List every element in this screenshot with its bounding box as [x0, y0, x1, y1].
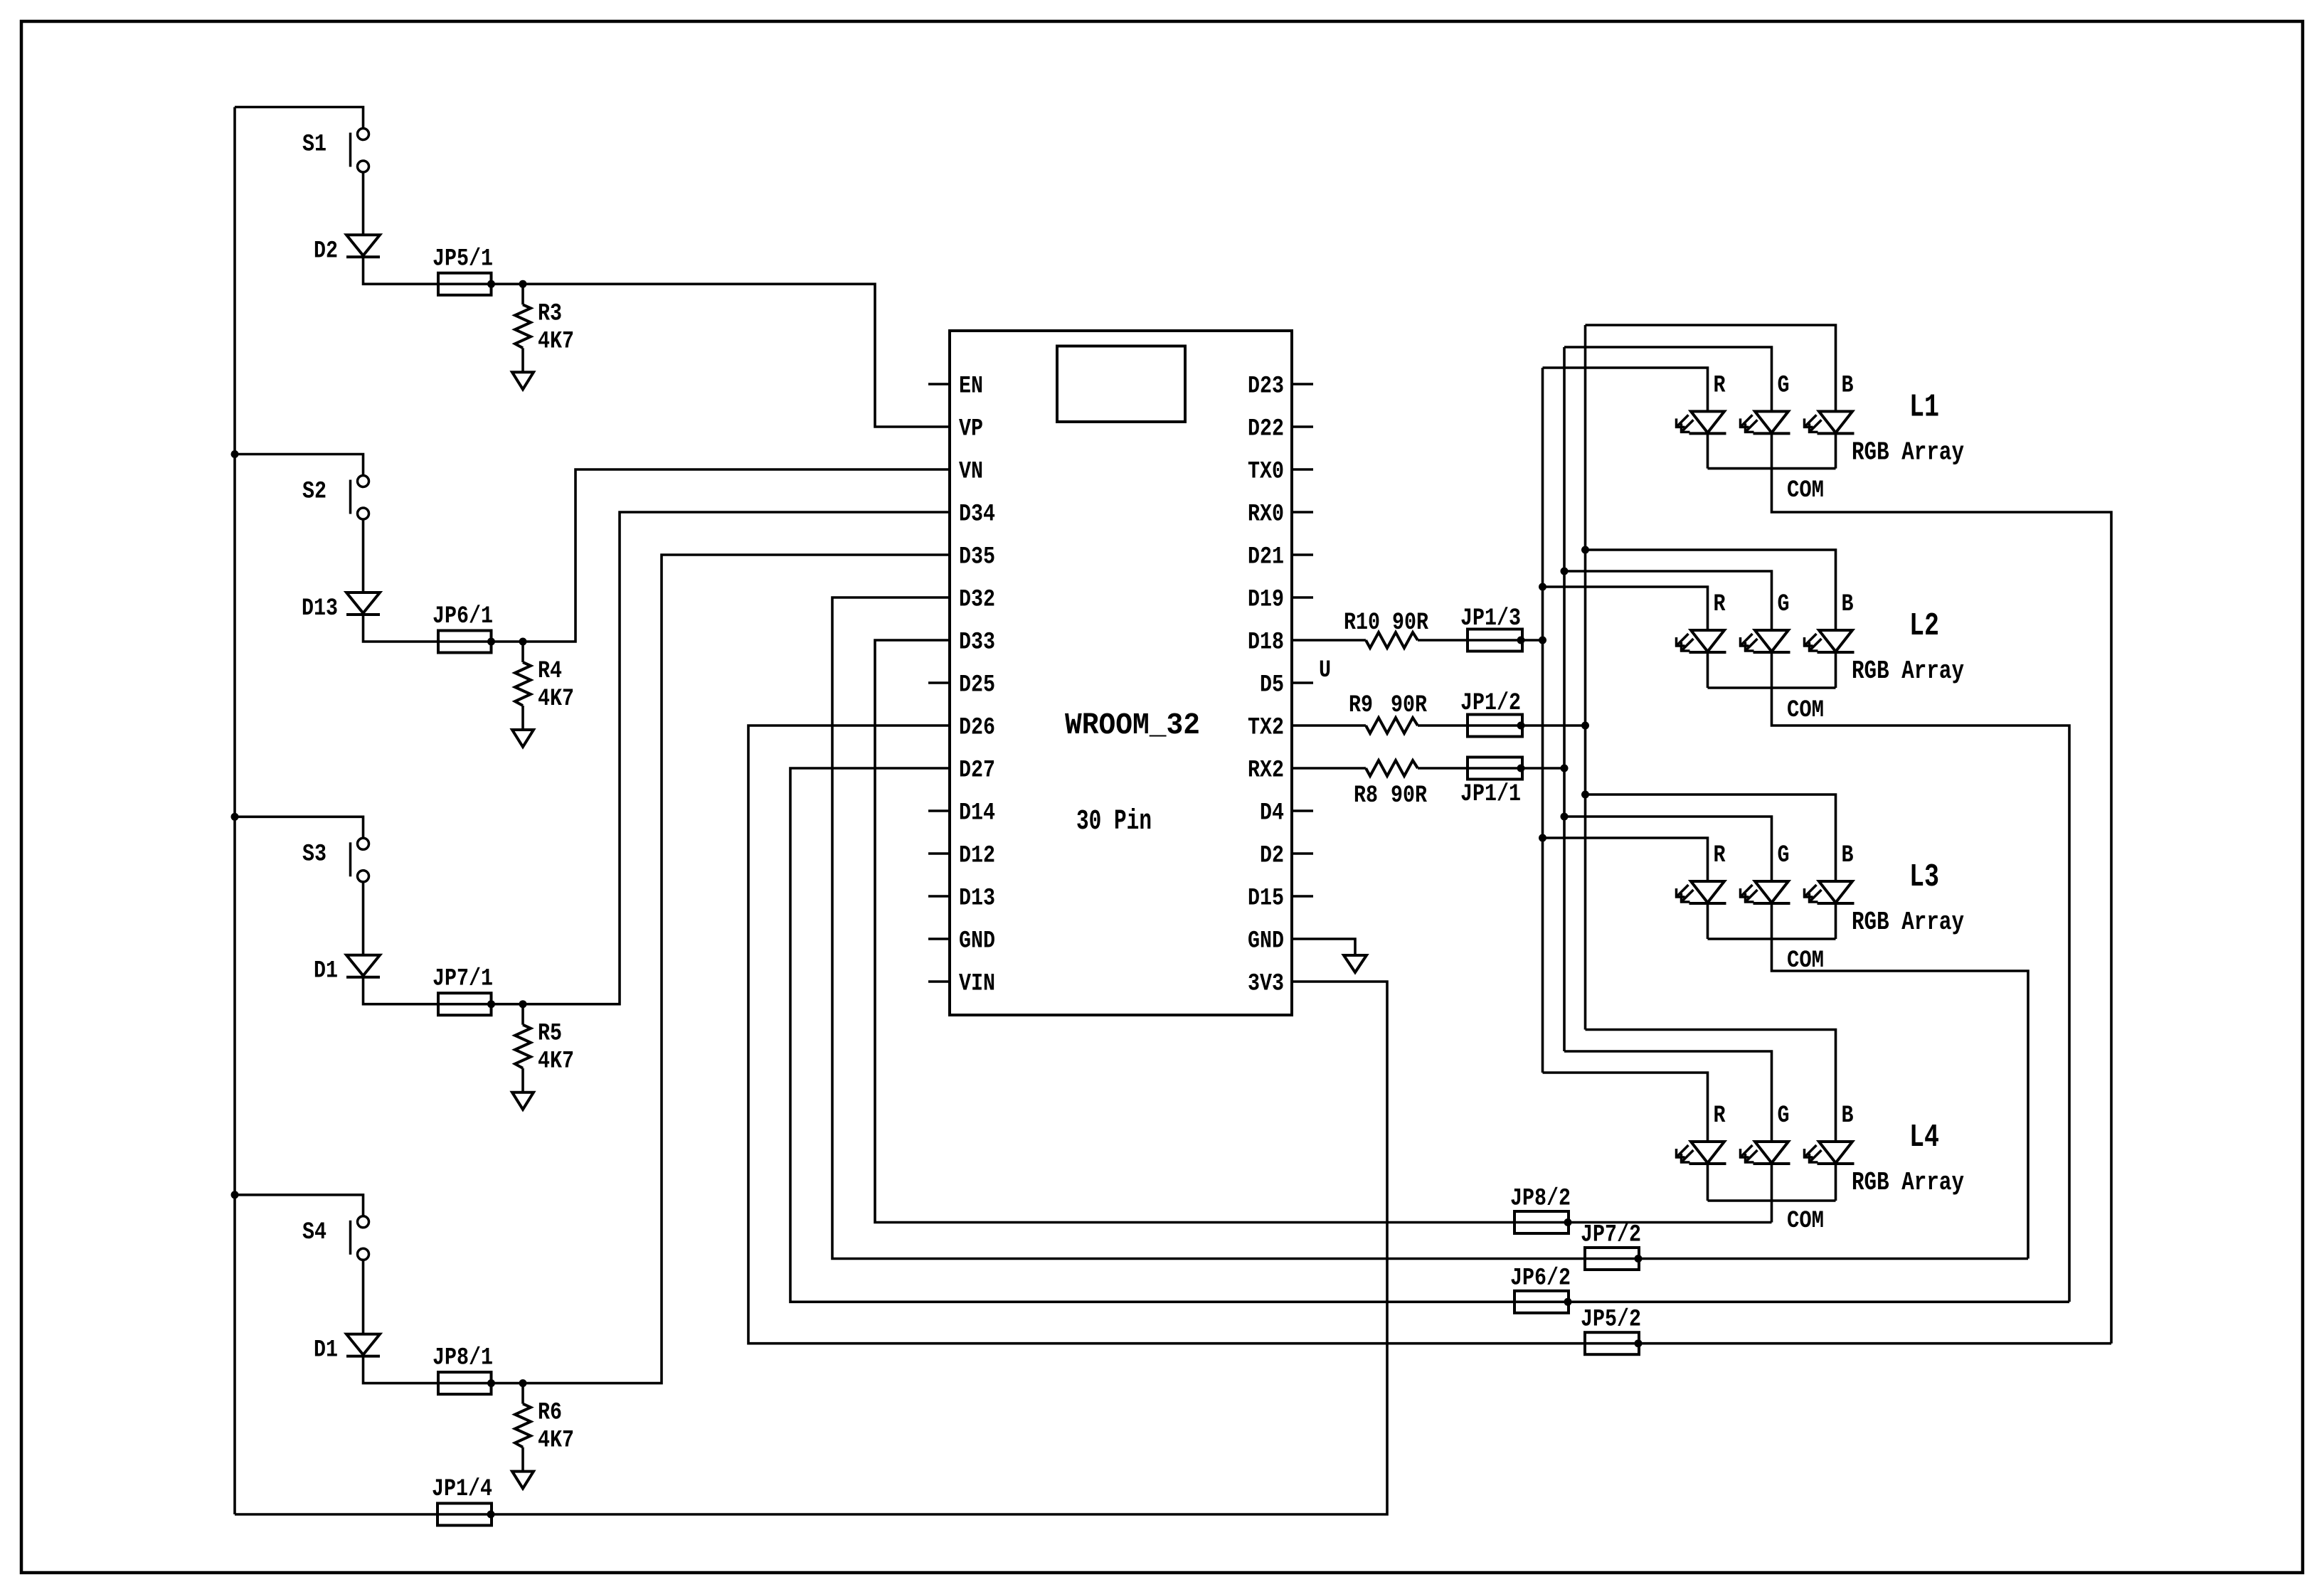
wire B bus [1584, 325, 1587, 1030]
node JP1/4 out [487, 1511, 495, 1519]
svg-text:D2: D2 [1260, 843, 1284, 870]
wire JP1/2 to bus [1522, 724, 1586, 727]
svg-text:GND: GND [959, 928, 995, 955]
svg-text:D35: D35 [959, 544, 995, 571]
svg-text:90R: 90R [1391, 782, 1427, 809]
LED L3 G [1755, 881, 1788, 903]
svg-text:4K7: 4K7 [538, 1048, 574, 1075]
svg-text:D26: D26 [959, 715, 995, 742]
svg-text:COM: COM [1787, 1208, 1824, 1235]
pin D25 (left 8) [928, 681, 950, 684]
wire L3 cathode rail [1707, 904, 1709, 939]
node JP6/1 out [487, 638, 495, 646]
wire JP8/2 right [1569, 1221, 1772, 1224]
resistor R10 90R [1366, 632, 1418, 648]
wire R bus [1542, 368, 1544, 1073]
svg-text:B: B [1842, 1102, 1854, 1130]
resistor R5 4K7 [521, 1004, 524, 1025]
svg-text:JP7/1: JP7/1 [433, 966, 493, 993]
ground R6 [512, 1472, 534, 1489]
wire L1 cathode rail [1707, 434, 1709, 468]
wire JP8/1 to R6 [492, 1382, 524, 1385]
node S3 tap [231, 813, 239, 821]
wire L3 B feed [1586, 795, 1836, 881]
wire left supply bus [233, 107, 236, 1515]
wire diode to jumper [364, 257, 439, 284]
svg-text:D4: D4 [1260, 800, 1284, 827]
svg-text:D12: D12 [959, 843, 995, 870]
resistor R6 4K7 [521, 1383, 524, 1404]
svg-text:COM: COM [1787, 947, 1824, 974]
pin D12 (left 12) [928, 852, 950, 855]
wire S2 to diode [362, 519, 365, 593]
resistor R8 90R [1366, 760, 1418, 776]
svg-text:VP: VP [959, 416, 983, 443]
svg-text:JP6/2: JP6/2 [1510, 1265, 1571, 1292]
node JP6/2 out [1564, 1298, 1572, 1306]
svg-text:D21: D21 [1248, 544, 1284, 571]
wire JP7/1 to D34 [523, 512, 950, 1004]
jumper JP6/1 [438, 640, 492, 643]
svg-text:JP1/2: JP1/2 [1460, 690, 1521, 717]
wire L1 R feed [1543, 368, 1708, 411]
node JP7/1 out [487, 1000, 495, 1008]
svg-text:D2: D2 [314, 238, 338, 265]
svg-text:B: B [1842, 372, 1854, 399]
wire S4 to diode [362, 1260, 365, 1334]
node S2 tap [231, 450, 239, 458]
LED L3 R [1691, 881, 1724, 903]
wire L2 cathode rail [1707, 653, 1709, 688]
wire G bus [1563, 347, 1566, 1051]
svg-text:VN: VN [959, 459, 983, 486]
wire JP6/2 row from pin [790, 768, 1514, 1302]
switch S2 [358, 476, 369, 487]
svg-text:R: R [1714, 1102, 1726, 1130]
svg-text:G: G [1778, 1102, 1790, 1130]
node JP7/2 out [1635, 1255, 1643, 1263]
diode D1 [346, 955, 380, 976]
svg-text:S1: S1 [302, 132, 327, 159]
diode D13 [346, 593, 380, 613]
svg-text:4K7: 4K7 [538, 328, 574, 355]
wire JP8/2 row from pin [875, 640, 1514, 1223]
svg-text:RGB Array: RGB Array [1852, 1168, 1964, 1197]
jumper JP1/1 [1468, 767, 1522, 770]
jumper JP1/2 [1468, 724, 1522, 727]
wire L4 cathode rail [1707, 1164, 1709, 1201]
svg-text:R: R [1714, 842, 1726, 869]
wire R8 to JP1/1 [1418, 767, 1468, 770]
svg-text:D19: D19 [1248, 587, 1284, 614]
svg-text:JP8/1: JP8/1 [433, 1345, 493, 1372]
pin RX0 (right 4) [1292, 511, 1313, 514]
wire L2 R feed [1543, 587, 1708, 630]
svg-text:L1: L1 [1909, 389, 1939, 425]
jumper JP5/1 [438, 282, 492, 285]
svg-text:S4: S4 [302, 1219, 327, 1246]
wire JP5/1 to R3 [492, 282, 524, 285]
jumper JP6/2 [1514, 1301, 1569, 1304]
pin D2 (right 12) [1292, 852, 1313, 855]
node JP1/2 bus junction [1581, 722, 1589, 730]
wire 3V3 to JP1/4 [492, 982, 1387, 1514]
svg-text:GND: GND [1248, 928, 1284, 955]
svg-text:D1: D1 [314, 958, 338, 985]
jumper JP7/1 [438, 1003, 492, 1006]
wire JP5/1 to VP [523, 284, 950, 427]
wire S2 top [235, 455, 364, 476]
resistor R3 4K7 [521, 284, 524, 304]
ground R3 [512, 372, 534, 389]
node R4 top [519, 638, 527, 646]
svg-text:S3: S3 [302, 841, 327, 868]
wire L4 B feed [1586, 1030, 1836, 1142]
pin D23 (right 1) [1292, 383, 1313, 386]
jumper JP5/2 [1585, 1342, 1639, 1345]
wire S4 top [235, 1195, 364, 1216]
LED L2 B [1819, 630, 1852, 652]
wire L1 G feed [1564, 347, 1772, 411]
svg-text:D23: D23 [1248, 373, 1284, 400]
jumper JP8/2 [1514, 1221, 1569, 1224]
node JP1/1 out [1517, 765, 1525, 772]
node L2 R tap [1539, 583, 1546, 591]
svg-text:D32: D32 [959, 587, 995, 614]
wire JP8/1 to D35 [523, 555, 950, 1383]
wire L1 B feed [1586, 325, 1836, 411]
wire JP6/2 right [1569, 1301, 2069, 1304]
svg-text:JP6/1: JP6/1 [433, 603, 493, 630]
svg-text:D34: D34 [959, 501, 995, 528]
pin TX0 (right 3) [1292, 468, 1313, 471]
svg-text:RGB Array: RGB Array [1852, 657, 1964, 686]
svg-text:U: U [1319, 657, 1331, 684]
wire diode to jumper [364, 977, 439, 1004]
svg-text:WROOM_32: WROOM_32 [1065, 708, 1200, 743]
svg-text:JP7/2: JP7/2 [1581, 1222, 1641, 1249]
wire JP1/4 to bus [235, 1513, 438, 1516]
pin D13 (left 13) [928, 895, 950, 898]
wire R9 to JP1/2 [1418, 724, 1468, 727]
pin GND (left 14) [928, 937, 950, 940]
wire JP5/2 right [1639, 1342, 2111, 1345]
svg-text:JP5/1: JP5/1 [433, 245, 493, 272]
svg-text:R9: R9 [1349, 692, 1373, 719]
node JP8/2 out [1564, 1218, 1572, 1226]
LED L2 R [1691, 630, 1724, 652]
node JP1/1 bus junction [1561, 765, 1569, 772]
svg-text:D1: D1 [314, 1337, 338, 1364]
svg-text:4K7: 4K7 [538, 1428, 574, 1455]
svg-text:R: R [1714, 372, 1726, 399]
svg-text:JP1/4: JP1/4 [432, 1476, 492, 1503]
pin EN (left 1) [928, 383, 950, 386]
svg-text:TX2: TX2 [1248, 715, 1284, 742]
jumper JP7/2 [1585, 1258, 1639, 1260]
svg-text:D5: D5 [1260, 672, 1284, 699]
LED L1 B [1819, 411, 1852, 432]
pin D21 (right 5) [1292, 553, 1313, 556]
wire L4 G feed [1564, 1051, 1772, 1142]
wire JP1/3 row [1292, 639, 1366, 642]
svg-text:JP5/2: JP5/2 [1581, 1307, 1641, 1334]
svg-text:R6: R6 [538, 1400, 562, 1427]
diode D1 [346, 1334, 380, 1355]
svg-text:R10 90R: R10 90R [1344, 610, 1428, 637]
LED L3 B [1819, 881, 1852, 903]
node L3 R tap [1539, 834, 1546, 842]
pin VIN (left 15) [928, 980, 950, 983]
wire JP1/2 row [1292, 724, 1366, 727]
svg-text:RX0: RX0 [1248, 501, 1284, 528]
wire JP1/3 to bus [1522, 639, 1543, 642]
wire JP7/1 to R5 [492, 1003, 524, 1006]
svg-text:B: B [1842, 842, 1854, 869]
node JP5/1 out [487, 280, 495, 288]
wire S3 top [235, 817, 364, 838]
switch S4 [358, 1216, 369, 1228]
node JP1/2 out [1517, 722, 1525, 730]
wire L4 COM [1771, 1164, 1773, 1223]
svg-text:RGB Array: RGB Array [1852, 908, 1964, 937]
wire GND pin [1292, 939, 1355, 955]
switch S3 [358, 838, 369, 849]
svg-text:D33: D33 [959, 629, 995, 657]
wire L2 B feed [1586, 550, 1836, 630]
wire diode to jumper [364, 615, 439, 642]
LED L1 G [1755, 411, 1788, 432]
ground R4 [512, 730, 534, 747]
LED L4 G [1755, 1142, 1788, 1163]
wire L3 G feed [1564, 817, 1772, 881]
wire S1 top [235, 107, 364, 129]
wire R10 to JP1/3 [1418, 639, 1468, 642]
node JP8/1 out [487, 1379, 495, 1387]
pin D15 (right 13) [1292, 895, 1313, 898]
svg-text:JP8/2: JP8/2 [1510, 1186, 1571, 1213]
svg-text:D25: D25 [959, 672, 995, 699]
svg-text:R3: R3 [538, 300, 562, 327]
svg-text:G: G [1778, 842, 1790, 869]
wire JP1/1 to bus [1522, 767, 1564, 770]
jumper JP1/3 [1468, 639, 1522, 642]
wire L4 R feed [1543, 1073, 1708, 1142]
svg-text:L4: L4 [1909, 1120, 1939, 1156]
svg-text:G: G [1778, 591, 1790, 618]
pin D14 (left 11) [928, 809, 950, 812]
node R3 top [519, 280, 527, 288]
node JP5/2 out [1635, 1339, 1643, 1347]
svg-text:D27: D27 [959, 758, 995, 785]
node L2 G tap [1561, 568, 1569, 575]
resistor R4 4K7 [521, 642, 524, 662]
wire JP5/2 row from pin [748, 726, 1585, 1344]
node R6 top [519, 1379, 527, 1387]
pin D5 (right 8) [1292, 681, 1313, 684]
wire JP6/1 to VN [523, 469, 950, 642]
LED L4 R [1691, 1142, 1724, 1163]
IC U WROOM_32 30-pin module [950, 331, 1292, 1015]
svg-text:30 Pin: 30 Pin [1076, 806, 1152, 838]
svg-text:D13: D13 [959, 886, 995, 913]
svg-text:R8: R8 [1354, 782, 1378, 809]
wire S3 to diode [362, 882, 365, 955]
LED L2 G [1755, 630, 1788, 652]
pin D22 (right 2) [1292, 425, 1313, 428]
wire L3 R feed [1543, 838, 1708, 881]
LED L1 R [1691, 411, 1724, 432]
diode D2 [346, 235, 380, 255]
svg-text:R4: R4 [538, 658, 562, 685]
wire L1 COM [1772, 434, 2112, 1343]
ground R5 [512, 1093, 534, 1110]
svg-text:R5: R5 [538, 1021, 562, 1048]
wire L3 COM [1772, 904, 2029, 1259]
resistor R9 90R [1366, 718, 1418, 733]
ground GND pin [1344, 955, 1367, 972]
svg-text:S2: S2 [302, 479, 327, 506]
LED L4 B [1819, 1142, 1852, 1163]
wire L2 G feed [1564, 571, 1772, 630]
wire S1 to diode [362, 172, 365, 235]
wire JP6/1 to R4 [492, 640, 524, 643]
node L2 B tap [1581, 546, 1589, 554]
node JP1/3 bus junction [1539, 637, 1546, 644]
svg-text:RX2: RX2 [1248, 758, 1284, 785]
wire JP1/1 row [1292, 767, 1366, 770]
svg-text:RGB Array: RGB Array [1852, 437, 1964, 467]
svg-text:90R: 90R [1391, 692, 1427, 719]
svg-text:3V3: 3V3 [1248, 971, 1284, 998]
wire JP7/2 row from pin [832, 597, 1585, 1259]
node S4 tap [231, 1191, 239, 1199]
svg-text:G: G [1778, 372, 1790, 399]
svg-text:D18: D18 [1248, 629, 1284, 657]
svg-text:B: B [1842, 591, 1854, 618]
svg-text:VIN: VIN [959, 971, 995, 998]
svg-text:L3: L3 [1909, 859, 1939, 896]
node R5 top [519, 1000, 527, 1008]
switch S1 [358, 129, 369, 140]
jumper JP1/4 [438, 1513, 492, 1516]
pin D19 (right 6) [1292, 596, 1313, 599]
svg-text:COM: COM [1787, 697, 1824, 724]
svg-text:EN: EN [959, 373, 983, 400]
node L3 B tap [1581, 791, 1589, 799]
svg-text:R: R [1714, 591, 1726, 618]
svg-text:D14: D14 [959, 800, 995, 827]
wire JP7/2 right [1639, 1258, 2028, 1260]
svg-text:COM: COM [1787, 477, 1824, 504]
pin D4 (right 11) [1292, 809, 1313, 812]
svg-text:L2: L2 [1909, 608, 1939, 644]
wire diode to jumper [364, 1356, 439, 1383]
svg-text:TX0: TX0 [1248, 459, 1284, 486]
jumper JP8/1 [438, 1382, 492, 1385]
svg-text:4K7: 4K7 [538, 686, 574, 713]
svg-text:D22: D22 [1248, 416, 1284, 443]
node L3 G tap [1561, 813, 1569, 821]
node JP1/3 out [1517, 637, 1525, 644]
svg-text:JP1/1: JP1/1 [1460, 781, 1521, 808]
svg-text:JP1/3: JP1/3 [1460, 605, 1521, 632]
svg-text:D13: D13 [302, 595, 338, 622]
svg-text:D15: D15 [1248, 886, 1284, 913]
wire L2 COM [1772, 653, 2070, 1302]
